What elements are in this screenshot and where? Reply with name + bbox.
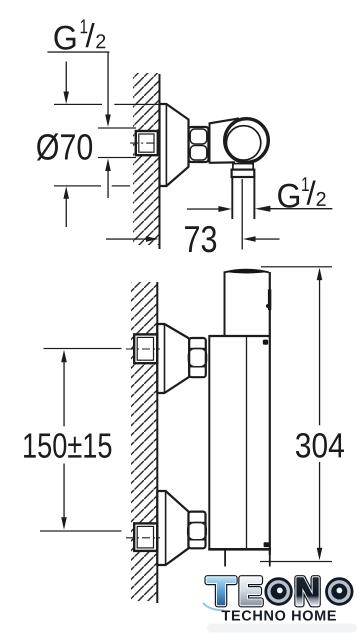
dimension text 73	[185, 226, 199, 252]
lower S-union escutcheon	[157, 491, 188, 565]
wall face line (top)	[159, 74, 161, 249]
underline of right G1/2 and arrow to hose	[268, 208, 332, 209]
underline of G1/2	[47, 51, 109, 52]
wall nut (square) of outlet elbow	[136, 131, 158, 155]
G 1/2 label top-left	[54, 20, 105, 50]
hose collar ring 1	[233, 164, 253, 170]
escutcheon flange edge	[165, 105, 167, 185]
wall face line (lower)	[156, 282, 158, 603]
inner circle	[226, 126, 260, 160]
G 1/2 label right with arrow to hose	[278, 177, 325, 207]
escutcheon bottom extension line y186	[54, 185, 101, 186]
pipe opening dark lens	[225, 269, 269, 273]
73 dimension line right with arrow	[243, 236, 256, 242]
bottom cap lines	[224, 549, 226, 566]
elbow body	[210, 118, 240, 163]
dimension text 304	[296, 433, 310, 458]
mixer body	[209, 335, 270, 337]
hose	[231, 177, 233, 219]
lower wall nut (square)	[134, 523, 157, 551]
escutcheon dia arrow down	[66, 62, 67, 94]
escutcheon dia arrow up	[63, 186, 69, 199]
150 +-15 dimension	[44, 348, 122, 349]
thread extension line bottom y157.5	[98, 157, 136, 158]
elbow front circle	[225, 119, 269, 163]
escutcheon (cone) of outlet elbow	[160, 104, 189, 186]
hose collar ring 2	[232, 170, 255, 177]
upper S-union escutcheon	[157, 324, 189, 393]
thick mark on pipe right edge	[268, 289, 271, 310]
wall (top) hatched	[133, 73, 160, 245]
escutcheon top extension line y104	[54, 104, 102, 105]
thread arrow up (below)	[105, 159, 111, 172]
logo letters T E N	[207, 578, 318, 604]
wall (lower) hatched	[131, 282, 157, 601]
arrow from left pointing right at hose	[187, 208, 219, 209]
73 dimension line left with arrow	[106, 238, 146, 239]
top pipe of mixer	[225, 270, 269, 336]
upper S-union hex nut	[189, 338, 206, 377]
upper wall nut (square)	[134, 334, 157, 363]
O lenses	[263, 576, 354, 606]
150 dimension arrows and line	[61, 350, 67, 363]
logo soft shadow	[207, 624, 357, 633]
leader G1/2 down to thread	[107, 52, 108, 115]
hose centerline	[241, 179, 243, 250]
clip dots on right edge	[263, 340, 268, 345]
lower S-union hex nut	[189, 512, 206, 549]
304 dimension arrows and line	[317, 268, 323, 281]
304 dimension	[261, 266, 332, 267]
dia 70 label	[37, 133, 59, 160]
dimension text 150+-15	[24, 434, 36, 458]
logo text TECHNO HOME	[222, 611, 231, 621]
hex nut of outlet elbow	[189, 127, 209, 162]
logo blue swoosh	[203, 603, 224, 611]
thread extension line top y128	[98, 127, 136, 128]
